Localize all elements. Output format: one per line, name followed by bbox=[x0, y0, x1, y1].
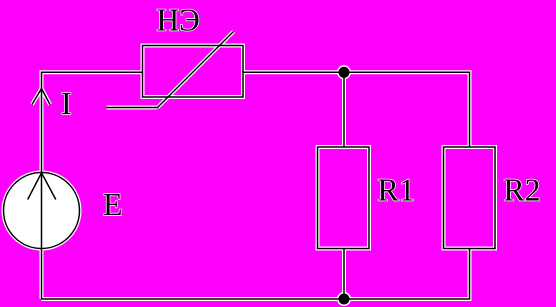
resistor R1 rectangle bbox=[318, 147, 370, 249]
white halo layer under all strokes bbox=[4, 32, 496, 300]
wire halo: bottom wire bbox=[42, 249, 470, 300]
wire: top right segment + R2 top branch bbox=[243, 72, 470, 147]
svg-text:I: I bbox=[61, 85, 72, 121]
halo: resistor R1 rectangle bbox=[318, 147, 370, 249]
voltage source E circle bbox=[4, 173, 80, 249]
svg-text:НЭ: НЭ bbox=[157, 2, 200, 38]
svg-text:R1: R1 bbox=[378, 172, 415, 208]
varistor foot line bbox=[107, 107, 158, 109]
node: top junction dot bbox=[339, 67, 350, 78]
halo: nonlinear element rectangle bbox=[143, 46, 244, 98]
halo: varistor foot bbox=[107, 106, 158, 110]
nonlinear element NE rectangle bbox=[143, 46, 244, 98]
halo: current arrow I bbox=[32, 89, 50, 105]
wire: bottom wire + R2 bottom branch bbox=[42, 249, 470, 300]
wire halo: R1 branch bottom bbox=[342, 249, 346, 300]
current I arrowhead bbox=[32, 89, 50, 105]
halo: resistor R2 rectangle bbox=[444, 147, 496, 249]
resistor R2 rectangle bbox=[444, 147, 496, 249]
node: bottom junction dot bbox=[339, 294, 350, 305]
halo: source circle bbox=[4, 173, 80, 249]
wire halo: R1 branch top bbox=[342, 72, 346, 147]
wire: R1 branch top bbox=[343, 72, 345, 147]
halo: varistor diagonal bbox=[158, 32, 234, 108]
varistor diagonal line bbox=[158, 32, 234, 108]
svg-text:R2: R2 bbox=[504, 172, 541, 208]
halo: top junction dot bbox=[337, 65, 351, 79]
wire: R1 branch bottom bbox=[343, 249, 345, 300]
wire halo: top wire left segment bbox=[42, 72, 143, 299]
black strokes layer bbox=[28, 32, 495, 300]
halo: bottom junction dot bbox=[337, 292, 351, 306]
wire: left vertical + top-left segment bbox=[42, 72, 143, 299]
source arrow barbs bbox=[28, 173, 56, 200]
svg-text:E: E bbox=[103, 186, 123, 222]
wire halo: top wire right segment bbox=[243, 72, 470, 147]
